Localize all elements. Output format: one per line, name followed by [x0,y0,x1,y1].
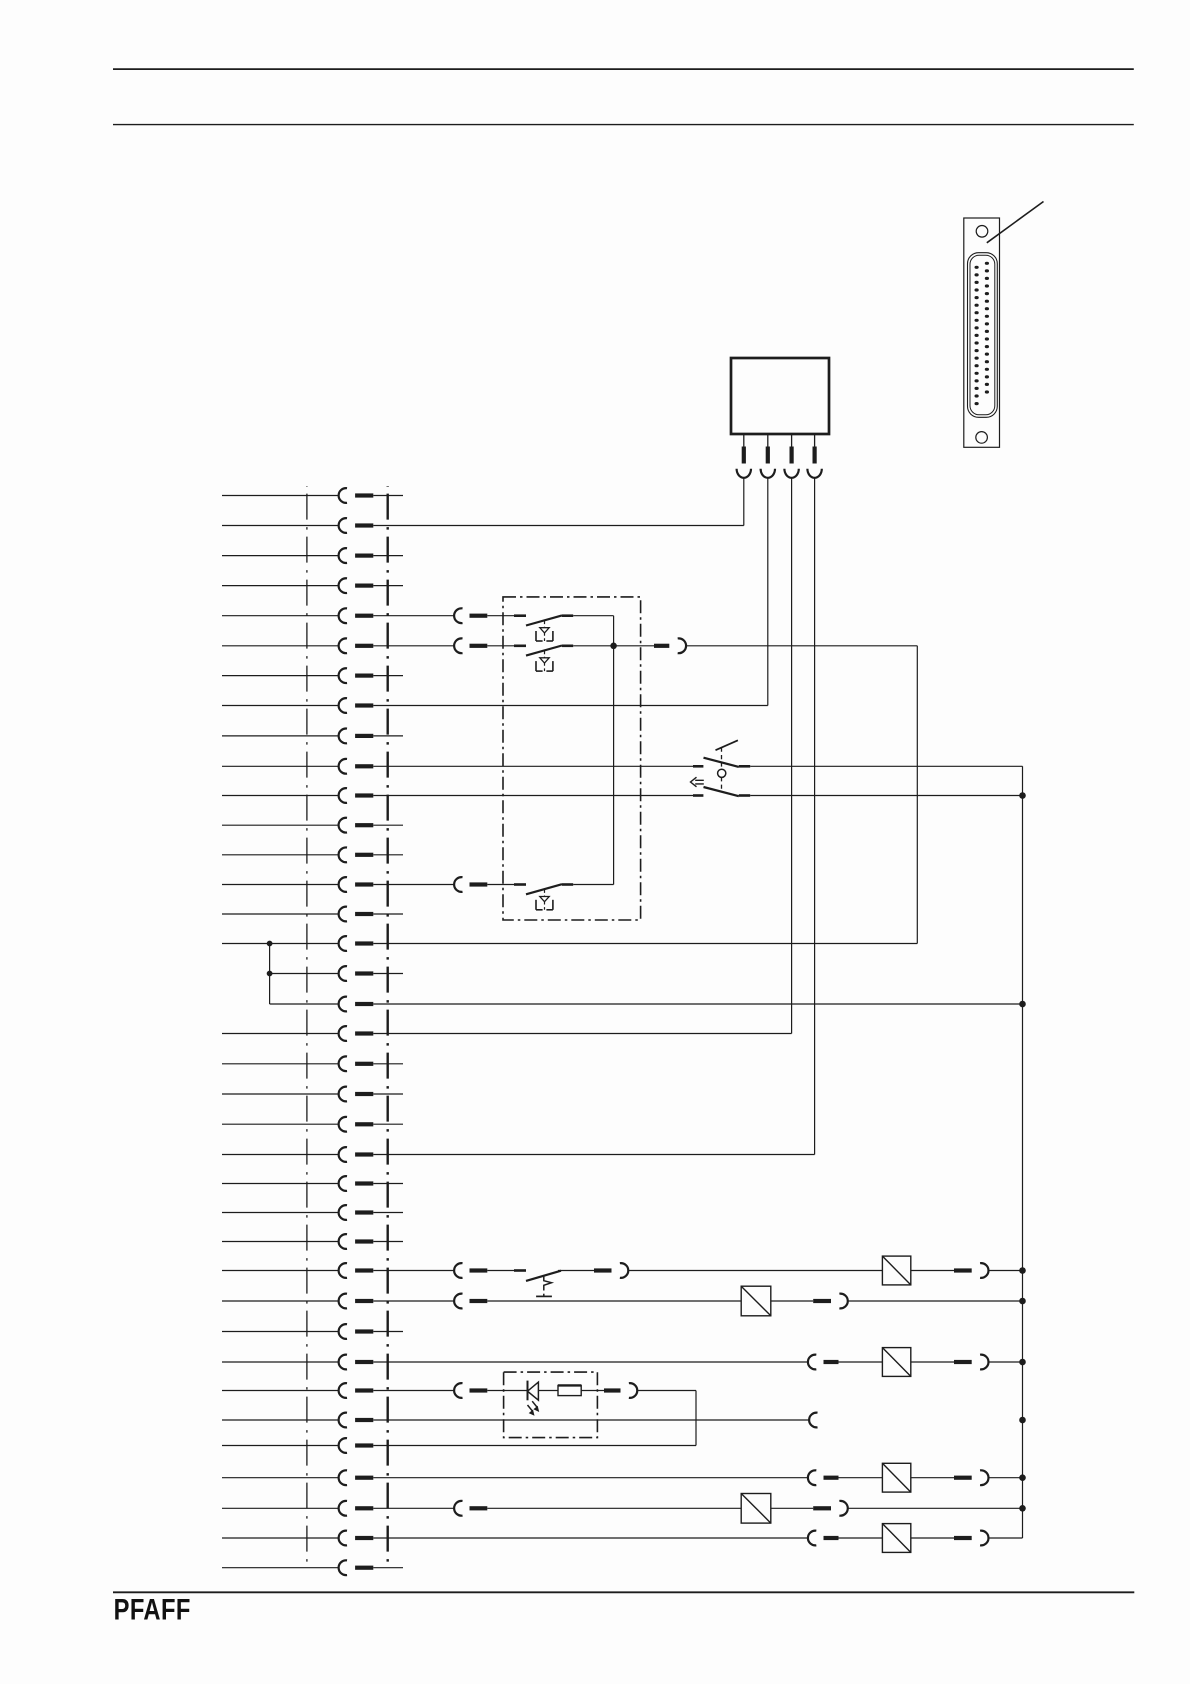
row 14 second connector contact pair [373,877,487,892]
wire LED to resistor R1 [538,1390,558,1392]
relay K1 [882,1256,910,1285]
wire row 34 to bus [988,1477,1022,1479]
row 9 cable socket/pin contact pair [222,729,373,744]
header rule bottom [113,124,1134,126]
row 13 cable socket/pin contact pair [222,847,373,862]
wire pin 1 to row 2 [743,478,745,526]
row 5 cable socket/pin contact pair [222,608,373,623]
row 34 cable socket/pin contact pair [222,1470,373,1485]
row 30 cable socket/pin contact pair [222,1355,373,1370]
row 10 cable socket/pin contact pair [222,759,373,774]
wire row 32 long lead [373,1419,809,1421]
plug contact pin 4 of A1 [807,434,821,478]
stub wire row 25 [373,1212,403,1214]
branch vertical wire rows 16-18 [269,944,271,1005]
D-sub connector X1 (37-pin, panel view) [964,218,1000,447]
row 26 cable socket/pin contact pair [222,1234,373,1249]
junction row 28 on bus [1019,1298,1026,1305]
relay K6 [741,1494,771,1524]
light-barrier switch S2 (row 6) [487,646,573,672]
row 31 output pin/socket pair [604,1383,637,1398]
wire S1 output down to node [613,616,615,885]
row 1 cable socket/pin contact pair [222,488,373,503]
two-pole switch S4 blades (rows 10/11) [693,758,750,797]
wire R1 to output contact [581,1390,604,1392]
svg-text:PFAFF: PFAFF [114,1593,191,1626]
row 36 cable socket/pin contact pair [222,1531,373,1546]
wire row 27 to relay K1 [628,1270,883,1272]
wire row 6 to right bus [686,645,917,647]
relay K4 [882,1463,910,1492]
wire S5 to output contact [558,1270,594,1272]
stub wire row 1 [373,495,403,497]
wire K5 to output contact [911,1537,954,1539]
wire K4 to output contact [911,1477,954,1479]
junction row 16 [267,941,273,947]
plug contact pin 3 of A1 [784,434,798,478]
sensor unit dash-dot enclosure [503,597,641,920]
row 4 cable socket/pin contact pair [222,578,373,593]
row 3 cable socket/pin contact pair [222,548,373,563]
wire to pin 4 row 23 [373,1154,814,1156]
row 35 output pin/socket pair [813,1501,848,1516]
junction row 35 on bus [1019,1505,1026,1512]
wire to pin 1 row 2 [373,525,744,527]
row 25 cable socket/pin contact pair [222,1205,373,1220]
row 14 cable socket/pin contact pair [222,877,373,892]
light-barrier switch S1 (row 5) [487,615,573,641]
row 21 cable socket/pin contact pair [222,1087,373,1102]
row 28 second connector contact pair [373,1294,487,1309]
wire row 35 to bus [847,1507,1022,1509]
pushbutton switch S5 (row 27) [487,1271,561,1297]
relay K2 [741,1286,771,1316]
row 16 cable socket/pin contact pair [222,936,373,951]
resistor R1 [558,1385,581,1395]
junction node rows 5/6 [610,643,617,650]
wire row 6 bus down to row 16 [916,646,918,944]
row 31 cable socket/pin contact pair [222,1383,373,1398]
wire to pin 3 row 19 [373,1033,791,1035]
row 35 cable socket/pin contact pair [222,1501,373,1516]
wire row 33 long lead [373,1445,696,1447]
row 27 cable socket/pin contact pair [222,1263,373,1278]
footer rule [113,1591,1134,1593]
row 20 cable socket/pin contact pair [222,1056,373,1071]
row 8 cable socket/pin contact pair [222,698,373,713]
wire pin 2 to row 8 [767,478,769,706]
row 27 right pin/socket pair [954,1263,988,1278]
stub wire row 24 [373,1183,403,1185]
junction row 17 [267,971,273,977]
row 30 output pin/socket pair [954,1355,988,1370]
wire to relay K4 [839,1477,883,1479]
wire row 11 to right bus [750,795,1022,797]
row 6 cable socket/pin contact pair [222,638,373,653]
stub wire row 26 [373,1241,403,1243]
row 27 second connector contact pair [373,1263,487,1278]
row 17 cable socket/pin contact pair [270,966,374,981]
row 24 cable socket/pin contact pair [222,1176,373,1191]
junction row 18 on bus [1019,1001,1026,1008]
row 30 right socket/pin pair [808,1355,839,1370]
row 27 output pin/socket pair [594,1263,628,1278]
row 19 cable socket/pin contact pair [222,1026,373,1041]
stub wire row 7 [373,675,403,677]
header rule top [113,68,1134,70]
wire to pin 2 row 8 [373,705,768,707]
wire to relay K5 [839,1537,883,1539]
row 37 cable socket/pin contact pair [222,1560,373,1575]
row 32 end socket contact [809,1413,817,1428]
wire row 14 switch output [573,884,613,886]
row 31 second connector contact pair [373,1383,487,1398]
row 22 cable socket/pin contact pair [222,1117,373,1132]
row 34 right socket/pin pair [808,1470,839,1485]
cable screen chain line left [306,486,308,1568]
relay K5 [882,1524,910,1553]
row 36 output pin/socket pair [954,1531,988,1546]
right bus vertical wire [1022,766,1024,1538]
wire row 27 to bus [988,1270,1022,1272]
LED unit dash-dot enclosure [504,1372,598,1438]
junction row 27 on bus [1019,1267,1026,1274]
wire K2 to output contact [771,1300,813,1302]
stub wire row 13 [373,854,403,856]
row 28 output pin/socket pair [813,1294,848,1309]
stub wire row 9 [373,735,403,737]
stub wire row 37 [373,1567,403,1569]
S4 detent circle [718,769,726,777]
row 5 second connector contact pair [373,608,487,623]
row 33 cable socket/pin contact pair [222,1438,373,1453]
cable screen chain line right [387,486,389,1568]
plug contact pin 2 of A1 [761,434,775,478]
row 6 second connector contact pair [373,638,487,653]
wire row 10 to right bus [750,765,1022,767]
row 36 right socket/pin pair [808,1531,839,1546]
wire row 34 long lead [373,1477,808,1479]
wire row 36 long lead [373,1537,808,1539]
row 18 cable socket/pin contact pair [270,997,374,1012]
row 35 second connector contact pair [373,1501,487,1516]
stub wire row 3 [373,555,403,557]
junction row 30 on bus [1019,1359,1026,1366]
junction row 32 on bus [1019,1417,1026,1424]
relay K3 [882,1348,910,1377]
stub wire row 22 [373,1123,403,1125]
wire to relay K3 [839,1361,883,1363]
wire K1 to output contact [911,1270,954,1272]
wire row 16 to bus elbow [373,943,917,945]
S4 mechanical link (dashed) [721,748,723,792]
stub wire row 29 [373,1331,403,1333]
wire to switch row 11 [373,795,693,797]
row 28 cable socket/pin contact pair [222,1294,373,1309]
row 23 cable socket/pin contact pair [222,1147,373,1162]
stub wire row 15 [373,913,403,915]
wire row 18 to right bus [373,1003,1022,1005]
S4 actuation direction arrow [691,777,704,787]
junction row 11 on bus [1019,792,1026,799]
wire K3 to output contact [911,1361,954,1363]
wire row 31 into LED box [487,1390,527,1392]
wire row 36 to bus [988,1537,1022,1539]
wire row 30 long lead [373,1361,808,1363]
row 15 cable socket/pin contact pair [222,907,373,922]
plug contact pin 1 of A1 [737,434,751,478]
wire pin 4 to row 23 [814,478,816,1155]
callout leader line to connector X1 [987,202,1044,243]
wire row 31 down to row 33 [695,1391,697,1446]
wire pin 3 to row 19 [791,478,793,1034]
stub wire row 17 [373,973,403,975]
LED V1 [528,1381,540,1416]
light-barrier switch S3 (row 14) [487,884,573,910]
row 7 cable socket/pin contact pair [222,668,373,683]
stub wire row 21 [373,1093,403,1095]
row 29 cable socket/pin contact pair [222,1324,373,1339]
wire row 31 output [637,1390,696,1392]
row 34 output pin/socket pair [954,1470,988,1485]
row 11 cable socket/pin contact pair [222,788,373,803]
wire K6 to output contact [771,1507,813,1509]
wire row 28 to bus [847,1300,1022,1302]
row 12 cable socket/pin contact pair [222,818,373,833]
S4 operating lever [716,740,738,750]
row 2 cable socket/pin contact pair [222,518,373,533]
control unit A1 box [731,358,829,434]
wire row 5 switch output [573,615,613,617]
stub wire row 4 [373,585,403,587]
junction row 34 on bus [1019,1474,1026,1481]
wire row 28 to relay K2 [487,1300,741,1302]
wire row 30 to bus [988,1361,1022,1363]
row 6 output pin/socket pair [654,638,686,653]
wire to switch row 10 [373,765,693,767]
row 32 cable socket/pin contact pair [222,1413,373,1428]
wire row 6 node to output contact [573,645,654,647]
wire row 35 to relay K6 [487,1507,741,1509]
stub wire row 12 [373,824,403,826]
stub wire row 20 [373,1063,403,1065]
